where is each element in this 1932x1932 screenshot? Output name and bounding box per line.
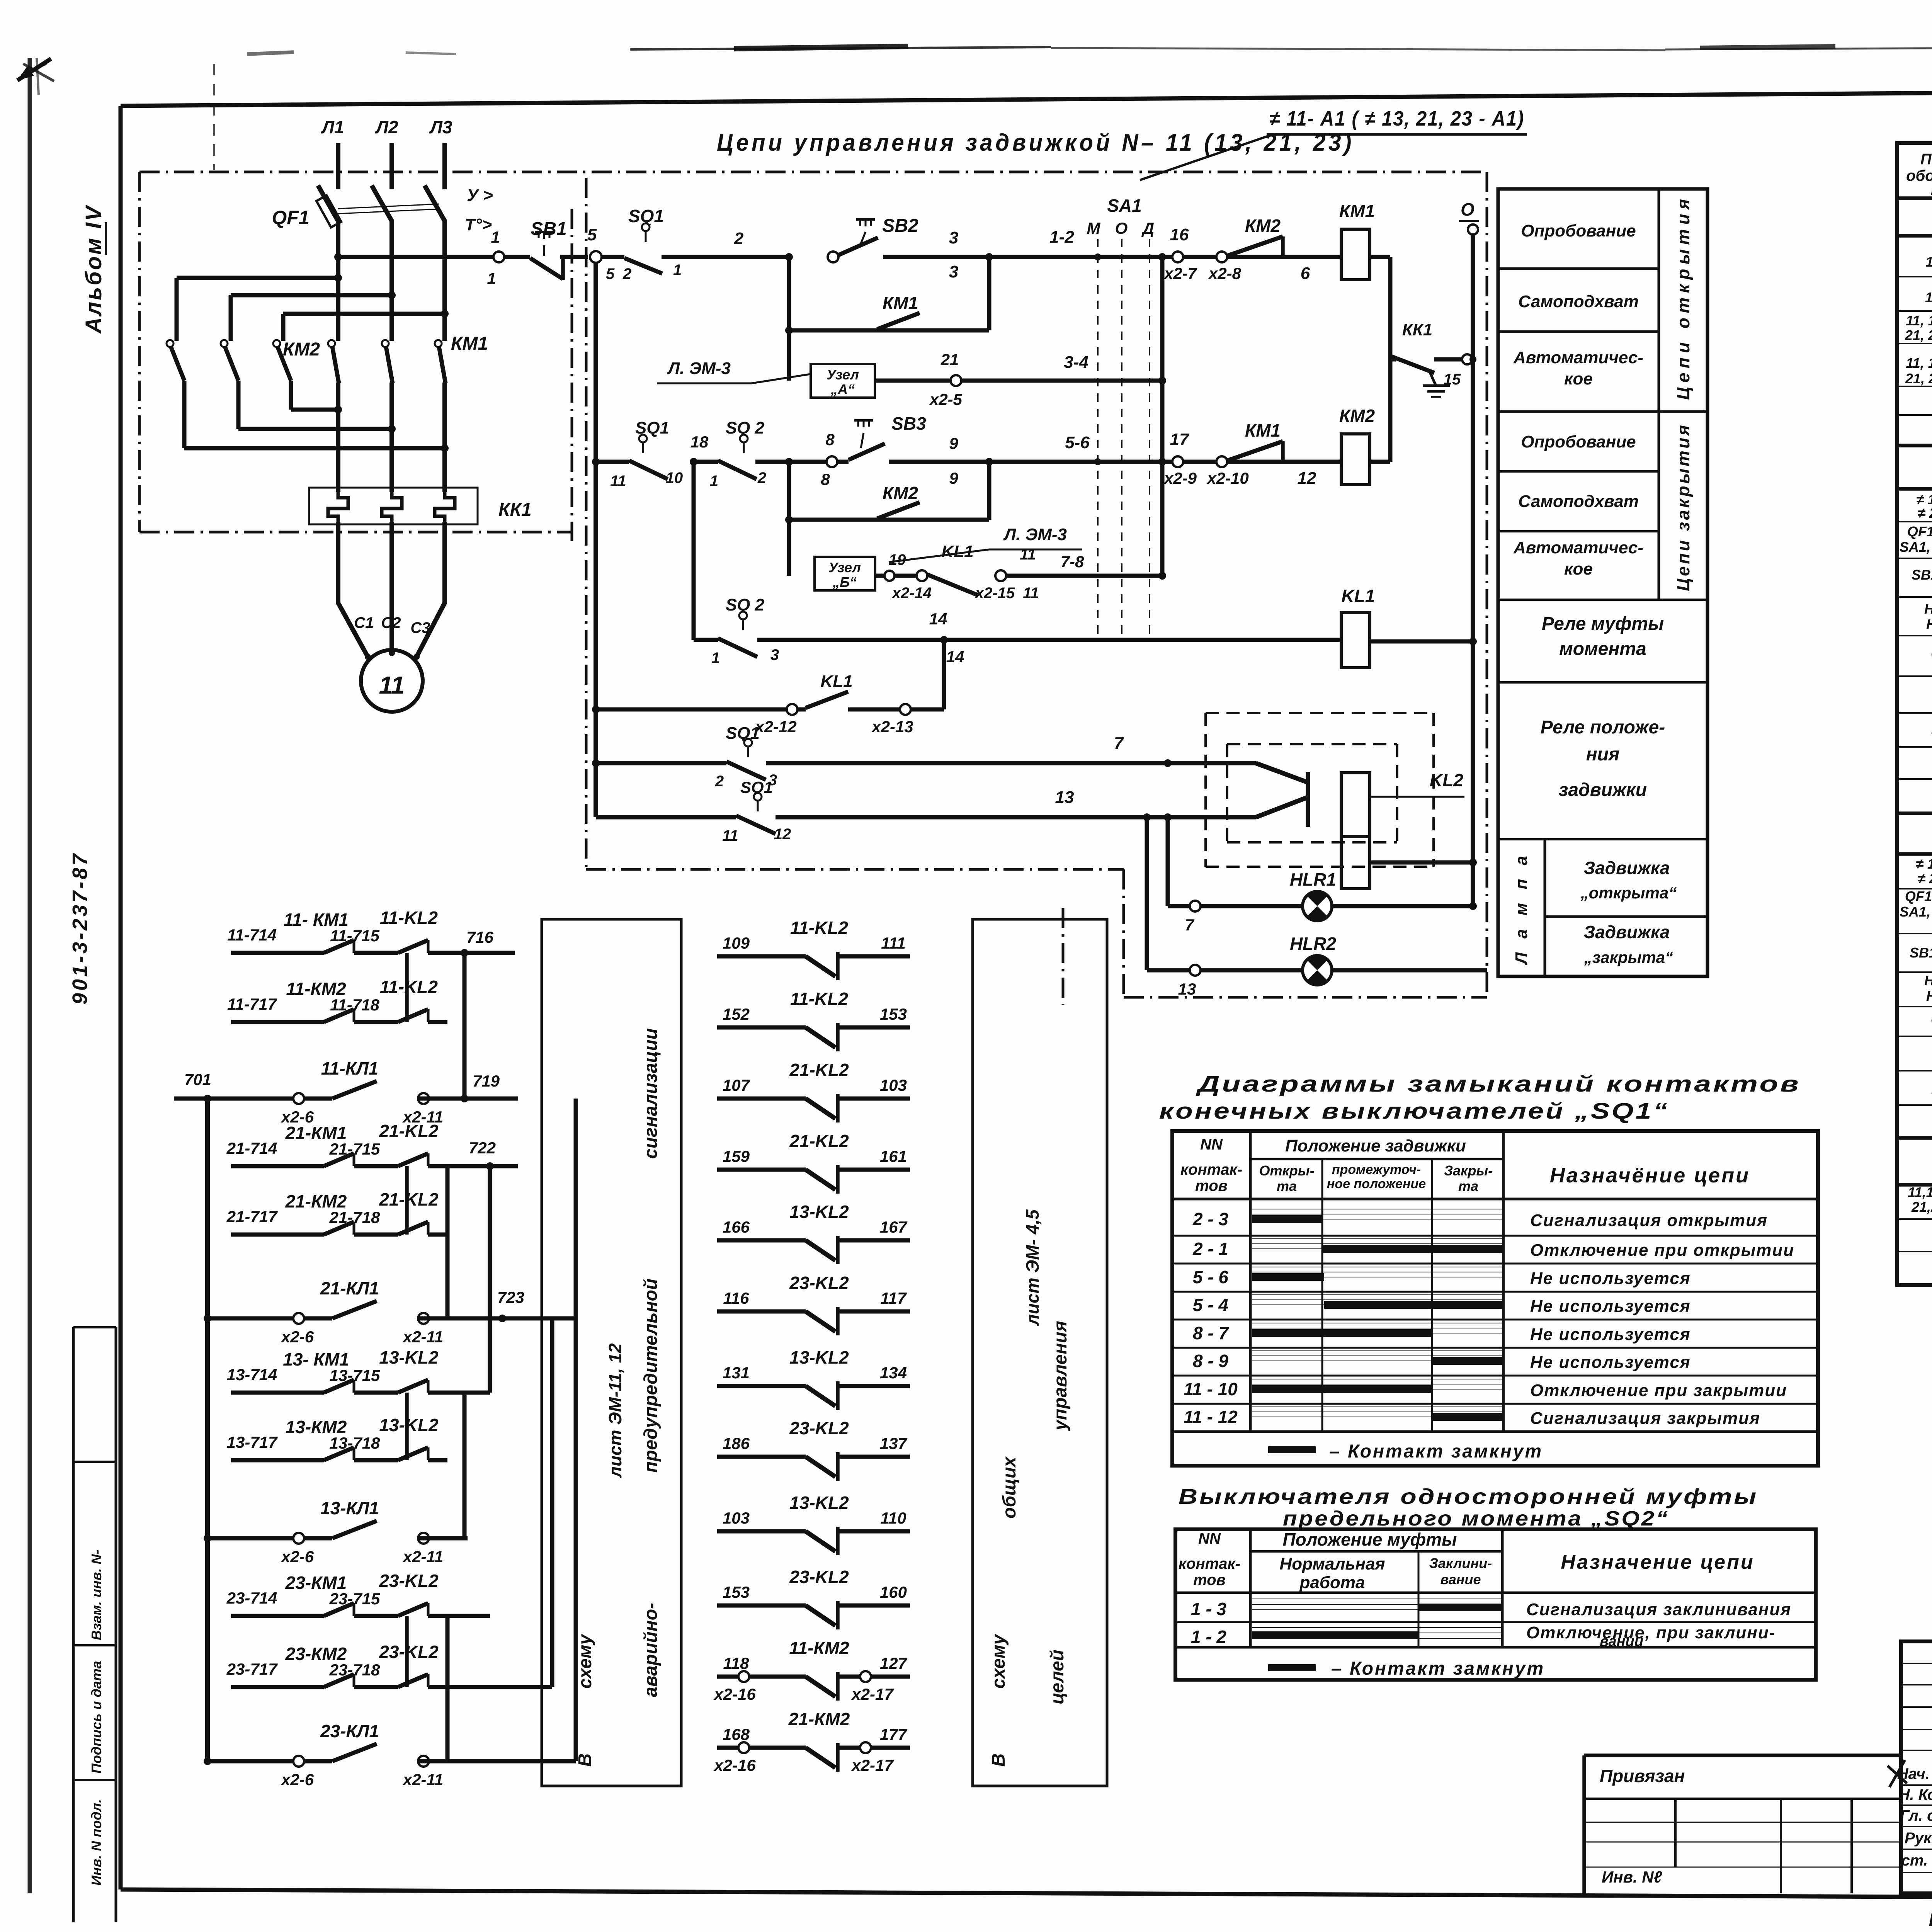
svg-text:Цепи управления задвижкой: Цепи управления задвижкой N– 11 (13, 21,… — [717, 129, 1354, 156]
svg-text:Автоматичес-: Автоматичес- — [1513, 538, 1643, 557]
svg-text:109: 109 — [723, 934, 750, 952]
svg-text:6: 6 — [1301, 264, 1310, 283]
svg-text:1: 1 — [487, 269, 496, 287]
left extension (Привязан) — [1584, 1753, 1901, 1757]
svg-text:х2-6: х2-6 — [281, 1770, 314, 1789]
svg-text:х2-11: х2-11 — [402, 1548, 443, 1566]
svg-text:13: 13 — [1178, 980, 1196, 998]
svg-text:11,13 -KL2;: 11,13 -KL2; — [1908, 1184, 1932, 1200]
svg-text:8: 8 — [821, 470, 830, 488]
svg-text:Самоподхват: Самоподхват — [1518, 292, 1639, 311]
svg-text:13-KL2: 13-KL2 — [789, 1347, 849, 1367]
svg-text:SA1, КК1,KL1: SA1, КК1,KL1 — [1900, 904, 1932, 920]
svg-text:Л. ЭМ-3: Л. ЭМ-3 — [667, 359, 731, 378]
svg-text:HLR1,: HLR1, — [1924, 973, 1932, 988]
svg-text:лист ЭМ-11, 12: лист ЭМ-11, 12 — [605, 1343, 625, 1478]
svg-text:1: 1 — [710, 473, 718, 490]
thermal element KK1 pole 2 — [382, 492, 402, 522]
svg-text:лист ЭМ- 4,5: лист ЭМ- 4,5 — [1022, 1209, 1043, 1326]
svg-text:1 - 2: 1 - 2 — [1191, 1627, 1226, 1647]
svg-text:„открыта“: „открыта“ — [1580, 884, 1677, 902]
KM2 pole 3 top bus — [281, 314, 286, 341]
left paper edge — [28, 58, 32, 1893]
svg-text:11-КМ2: 11-КМ2 — [789, 1638, 849, 1658]
svg-text:В: В — [575, 1753, 595, 1767]
svg-text:– Контакт замкнут: – Контакт замкнут — [1329, 1441, 1543, 1462]
svg-text:≠ 13- А1,: ≠ 13- А1, — [1916, 856, 1932, 872]
node 8 / SB3 — [789, 460, 827, 464]
svg-text:19: 19 — [889, 551, 906, 568]
routing box: аварийно-предупредительная сигнализация — [542, 919, 681, 1786]
svg-text:задвижки: задвижки — [1559, 780, 1647, 800]
svg-text:701: 701 — [184, 1070, 211, 1088]
svg-text:8: 8 — [825, 430, 835, 449]
svg-text:Положение задвижки: Положение задвижки — [1285, 1136, 1466, 1155]
legend row table 1 — [1268, 1446, 1316, 1453]
svg-text:8 - 9: 8 - 9 — [1193, 1351, 1228, 1371]
svg-text:Задвижка: Задвижка — [1584, 922, 1670, 942]
svg-text:КМ1: КМ1 — [451, 333, 488, 354]
svg-text:х2-8: х2-8 — [1208, 264, 1242, 282]
svg-text:160: 160 — [880, 1583, 907, 1601]
svg-text:промежуточ-: промежуточ- — [1332, 1162, 1421, 1177]
corner arrow mark — [17, 59, 51, 80]
diagram table SQ2 — [1175, 1529, 1816, 1680]
svg-text:х2-13: х2-13 — [871, 718, 913, 736]
svg-text:кое: кое — [1564, 369, 1593, 388]
svg-text:722: 722 — [469, 1139, 496, 1157]
svg-text:Сигнализация заклинивания: Сигнализация заклинивания — [1526, 1600, 1791, 1619]
wire: control tap row 1 — [334, 253, 342, 261]
svg-text:≠ 21- А1: ≠ 21- А1 — [1918, 505, 1932, 521]
svg-text:11-KL2: 11-KL2 — [380, 908, 438, 928]
svg-text:21-KL2: 21-KL2 — [789, 1060, 849, 1080]
svg-text:1 - 3: 1 - 3 — [1191, 1599, 1226, 1619]
svg-text:23-717: 23-717 — [226, 1660, 278, 1678]
svg-text:21-KL2: 21-KL2 — [789, 1131, 849, 1151]
svg-text:161: 161 — [880, 1147, 907, 1165]
svg-text:1-2: 1-2 — [1049, 228, 1074, 247]
svg-text:КК1: КК1 — [1402, 320, 1433, 339]
KM2 pole 3 contact — [273, 340, 280, 347]
svg-text:– Контакт замкнут: – Контакт замкнут — [1331, 1658, 1545, 1679]
svg-text:SА1: SА1 — [1107, 196, 1141, 216]
svg-text:23-КЛ1: 23-КЛ1 — [320, 1721, 379, 1741]
svg-text:11-KL2: 11-KL2 — [790, 989, 848, 1009]
svg-text:предельного момента „SQ2“: предельного момента „SQ2“ — [1283, 1507, 1669, 1530]
svg-text:16: 16 — [1170, 225, 1189, 244]
svg-text:21-КЛ1: 21-КЛ1 — [320, 1278, 379, 1298]
svg-text:Положение муфты: Положение муфты — [1283, 1529, 1457, 1549]
svg-text:18: 18 — [690, 433, 709, 451]
pushbutton SB2 — [828, 252, 838, 262]
uzel B row (7-8) — [815, 557, 875, 590]
svg-text:Взам. инв. N-: Взам. инв. N- — [88, 1550, 104, 1641]
svg-text:5: 5 — [606, 265, 615, 282]
svg-text:контак-: контак- — [1179, 1555, 1240, 1572]
svg-text:Сигнализация закрытия: Сигнализация закрытия — [1530, 1409, 1760, 1428]
svg-text:719: 719 — [473, 1072, 500, 1090]
svg-text:контак-: контак- — [1180, 1161, 1242, 1178]
svg-text:21-KL2: 21-KL2 — [379, 1189, 439, 1209]
svg-text:152: 152 — [723, 1005, 750, 1023]
svg-text:13-KL2: 13-KL2 — [379, 1347, 439, 1367]
svg-text:х2-5: х2-5 — [929, 390, 963, 408]
svg-text:х2-11: х2-11 — [402, 1328, 443, 1346]
svg-text:≠ 23- А1: ≠ 23- А1 — [1918, 871, 1932, 886]
svg-text:х2-11: х2-11 — [402, 1770, 443, 1789]
svg-text:ние: ние — [1931, 182, 1932, 199]
svg-text:сигнализации: сигнализации — [641, 1028, 661, 1159]
svg-text:Диаграммы замыканий к: Диаграммы замыканий контактов — [1195, 1071, 1801, 1097]
svg-text:х2-14: х2-14 — [891, 585, 932, 602]
svg-text:Привязан: Привязан — [1600, 1766, 1685, 1786]
svg-text:Копир Лаврухина: Копир Лаврухина — [1929, 1909, 1932, 1930]
svg-text:23-714: 23-714 — [226, 1589, 277, 1607]
svg-text:13-КЛ1: 13-КЛ1 — [320, 1498, 379, 1518]
svg-text:23-KL2: 23-KL2 — [379, 1571, 439, 1591]
svg-text:С1: С1 — [354, 614, 374, 631]
svg-text:901-3-237-87: 901-3-237-87 — [68, 852, 92, 1005]
svg-text:5 - 6: 5 - 6 — [1193, 1267, 1228, 1287]
svg-text:131: 131 — [723, 1364, 750, 1382]
svg-text:2: 2 — [622, 265, 631, 282]
svg-text:„Б“: „Б“ — [832, 574, 857, 590]
row x2-12 KL1 x2-13 — [596, 707, 787, 712]
svg-text:КМ2: КМ2 — [283, 339, 320, 360]
svg-text:Отключение, при заклини-: Отключение, при заклини- — [1526, 1623, 1776, 1642]
svg-text:11-КЛ1: 11-КЛ1 — [321, 1058, 379, 1078]
branch: KM2 self-hold — [785, 516, 793, 524]
svg-text:Инв. Nℓ: Инв. Nℓ — [1602, 1868, 1662, 1886]
svg-text:9: 9 — [949, 434, 958, 452]
svg-text:21, 23 SQ,1ʾ: 21, 23 SQ,1ʾ — [1905, 327, 1932, 343]
svg-text:12: 12 — [1298, 469, 1316, 488]
svg-text:2: 2 — [715, 773, 724, 790]
svg-text:Реле положе-: Реле положе- — [1541, 717, 1665, 738]
svg-text:В: В — [988, 1753, 1009, 1767]
svg-text:ст. инж.: ст. инж. — [1901, 1852, 1932, 1869]
svg-text:103: 103 — [880, 1076, 907, 1094]
svg-text:КМ2: КМ2 — [883, 483, 918, 503]
svg-text:Задвижка: Задвижка — [1584, 858, 1670, 878]
KM2 pole 1 top bus — [175, 278, 179, 341]
svg-text:HLR2: HLR2 — [1926, 988, 1932, 1004]
svg-text:SQ1: SQ1 — [726, 724, 760, 743]
svg-text:153: 153 — [723, 1583, 750, 1601]
svg-text:21: 21 — [940, 350, 959, 369]
KM2 pole bottom bus 3 — [182, 381, 187, 448]
svg-text:NN: NN — [1200, 1136, 1223, 1153]
svg-text:5 - 4: 5 - 4 — [1193, 1295, 1228, 1315]
svg-text:11-KL2: 11-KL2 — [380, 977, 438, 997]
svg-text:159: 159 — [723, 1147, 750, 1165]
svg-text:3: 3 — [949, 262, 958, 281]
svg-text:та: та — [1277, 1178, 1297, 1194]
svg-text:QF1: QF1 — [272, 207, 309, 228]
svg-text:153: 153 — [880, 1005, 907, 1023]
contactor KM1 pole 1 — [328, 340, 335, 347]
svg-text:та: та — [1458, 1178, 1478, 1194]
svg-text:HLR1: HLR1 — [1290, 869, 1336, 889]
svg-text:Отключение при закрытии: Отключение при закрытии — [1530, 1381, 1787, 1400]
dashed enclosure: control section — [585, 178, 588, 869]
svg-text:ное положение: ное положение — [1327, 1177, 1426, 1191]
svg-text:КМ1: КМ1 — [1245, 420, 1281, 440]
svg-text:вание: вание — [1440, 1571, 1481, 1587]
svg-text:х2-6: х2-6 — [281, 1548, 314, 1566]
svg-text:110: 110 — [881, 1509, 906, 1527]
branch: KM1 self-hold — [787, 257, 791, 381]
svg-text:2 - 1: 2 - 1 — [1192, 1239, 1228, 1259]
svg-text:13-KL2: 13-KL2 — [789, 1493, 849, 1513]
svg-text:КМ2: КМ2 — [1339, 406, 1375, 426]
svg-text:Откры-: Откры- — [1259, 1163, 1315, 1179]
svg-text:управления: управления — [1050, 1321, 1071, 1431]
coil KL2 — [1341, 773, 1370, 837]
svg-text:111: 111 — [881, 934, 906, 952]
svg-text:11-714: 11-714 — [227, 926, 277, 944]
svg-text:11: 11 — [1020, 546, 1036, 563]
svg-text:NN: NN — [1198, 1530, 1221, 1547]
svg-text:Сигнализация открытия: Сигнализация открытия — [1530, 1211, 1768, 1230]
svg-text:х2-17: х2-17 — [851, 1756, 894, 1774]
svg-text:КК1: КК1 — [498, 500, 532, 520]
svg-text:KL2: KL2 — [1430, 770, 1463, 790]
thermal element KK1 pole 1 — [328, 492, 348, 522]
svg-text:11, 13 SQ 2,: 11, 13 SQ 2, — [1906, 355, 1932, 371]
svg-text:Т°>: Т°> — [465, 215, 492, 234]
svg-text:Узел: Узел — [828, 560, 861, 575]
node 701 row — [174, 1097, 207, 1101]
routing box: общие цепи управления — [973, 919, 1107, 1786]
position relay KL2 dashed boxes — [1206, 712, 1434, 714]
svg-text:Закры-: Закры- — [1444, 1163, 1493, 1179]
coil KM2 — [1341, 434, 1370, 485]
svg-text:кое: кое — [1564, 560, 1593, 578]
terminal x2-10 — [1216, 456, 1227, 467]
svg-text:HLR2: HLR2 — [1290, 934, 1337, 954]
wire row1 to coil — [989, 255, 1341, 259]
svg-text:Л3: Л3 — [429, 117, 452, 137]
svg-text:11, 21: 11, 21 — [1925, 254, 1932, 270]
svg-text:схему: схему — [575, 1633, 595, 1689]
svg-text:7: 7 — [1185, 916, 1194, 934]
svg-text:работа: работа — [1299, 1573, 1365, 1592]
svg-text:107: 107 — [723, 1076, 750, 1094]
svg-text:2: 2 — [734, 229, 744, 248]
svg-text:Гл. спец.: Гл. спец. — [1900, 1807, 1932, 1824]
svg-text:7: 7 — [1114, 734, 1124, 753]
svg-text:Заклини-: Заклини- — [1429, 1555, 1492, 1571]
svg-text:Узел: Узел — [827, 367, 859, 383]
svg-text:Не используется: Не используется — [1530, 1353, 1691, 1372]
phase line 3 — [442, 143, 447, 189]
svg-text:М: М — [1087, 219, 1101, 237]
svg-text:10: 10 — [666, 469, 683, 486]
lamp HLR1 row — [1166, 817, 1170, 906]
terminal x2-7 — [1172, 252, 1183, 262]
vertical link D-column — [1160, 257, 1165, 576]
KM2 pole 2 contact — [221, 340, 228, 347]
contactor KM1 pole 2 — [382, 340, 389, 347]
svg-text:О: О — [1461, 199, 1475, 219]
svg-text:момента: момента — [1559, 639, 1646, 659]
svg-text:21, 23, SQ 2: 21, 23, SQ 2 — [1905, 371, 1932, 386]
svg-text:23-KL2: 23-KL2 — [379, 1642, 439, 1662]
svg-text:168: 168 — [723, 1725, 750, 1743]
svg-text:13, 23: 13, 23 — [1925, 289, 1932, 305]
svg-text:х2-6: х2-6 — [281, 1328, 314, 1346]
svg-text:5-6: 5-6 — [1065, 433, 1090, 452]
left margin stamp column — [72, 1327, 75, 1922]
svg-text:13-714: 13-714 — [227, 1366, 277, 1384]
svg-text:13-KL2: 13-KL2 — [789, 1202, 849, 1222]
svg-text:118: 118 — [723, 1654, 750, 1672]
svg-text:13-KL2: 13-KL2 — [379, 1415, 439, 1435]
svg-text:схему: схему — [988, 1633, 1009, 1689]
svg-text:11: 11 — [379, 671, 405, 699]
uzel A row (3-4) — [811, 364, 875, 398]
title block — [1901, 1641, 1932, 1893]
KM2 pole bottom bus 1 — [289, 381, 293, 410]
svg-text:Подпись и дата: Подпись и дата — [88, 1661, 104, 1774]
left ladder bus — [205, 1099, 210, 1761]
svg-text:5: 5 — [587, 225, 597, 244]
svg-text:723: 723 — [497, 1288, 524, 1306]
svg-text:Н. Контр: Н. Контр — [1899, 1786, 1932, 1803]
svg-text:х2-7: х2-7 — [1163, 264, 1197, 282]
svg-text:1: 1 — [673, 262, 682, 279]
svg-text:х2-17: х2-17 — [851, 1685, 894, 1703]
svg-text:„закрыта“: „закрыта“ — [1584, 948, 1673, 966]
svg-text:SA1, КК1,KL1: SA1, КК1,KL1 — [1900, 539, 1932, 555]
svg-text:23-KL2: 23-KL2 — [789, 1273, 849, 1293]
svg-text:14: 14 — [929, 610, 947, 628]
svg-text:Не используется: Не используется — [1530, 1269, 1691, 1288]
terminal x2-8 — [1216, 252, 1227, 262]
svg-text:SB1... SB3: SB1... SB3 — [1910, 945, 1932, 961]
svg-text:HLR2: HLR2 — [1926, 616, 1932, 632]
svg-text:Автоматичес-: Автоматичес- — [1513, 348, 1643, 367]
svg-text:KL1: KL1 — [820, 672, 852, 691]
svg-text:13: 13 — [1055, 788, 1074, 807]
motor 11 — [361, 650, 423, 712]
svg-text:Опробование: Опробование — [1521, 432, 1636, 451]
terminal x2-9 — [1172, 456, 1183, 467]
svg-text:Выключателя односторонней: Выключателя односторонней муфты — [1179, 1484, 1758, 1509]
svg-text:Д: Д — [1141, 219, 1154, 237]
svg-text:SB2: SB2 — [882, 216, 918, 236]
svg-text:предупредительной: предупредительной — [641, 1279, 661, 1473]
svg-text:21-714: 21-714 — [226, 1139, 277, 1157]
svg-text:1: 1 — [711, 650, 720, 667]
KM2 pole 1 contact — [167, 340, 173, 347]
svg-text:3: 3 — [770, 646, 779, 663]
ground — [1430, 372, 1436, 386]
svg-text:3-4: 3-4 — [1064, 353, 1088, 372]
svg-text:Рук. др.: Рук. др. — [1905, 1830, 1932, 1847]
contactor KM1 pole 3 — [435, 340, 442, 347]
thermal relay KK1 box — [309, 488, 478, 524]
svg-text:12: 12 — [774, 826, 791, 843]
svg-text:11-717: 11-717 — [227, 995, 277, 1013]
svg-text:11-KL2: 11-KL2 — [790, 918, 848, 938]
svg-text:9: 9 — [949, 469, 958, 487]
svg-text:21-717: 21-717 — [226, 1207, 278, 1226]
svg-text:х2-16: х2-16 — [713, 1685, 756, 1703]
svg-text:х2-12: х2-12 — [754, 718, 796, 736]
svg-text:ния: ния — [1586, 744, 1620, 765]
svg-text:21-KL2: 21-KL2 — [379, 1121, 439, 1141]
svg-text:177: 177 — [880, 1725, 908, 1743]
svg-text:SB1.. SB3: SB1.. SB3 — [1912, 567, 1932, 583]
svg-text:Реле муфты: Реле муфты — [1542, 614, 1664, 634]
svg-text:14: 14 — [946, 648, 964, 666]
svg-text:Л1: Л1 — [321, 117, 344, 137]
svg-text:Позиц: Позиц — [1920, 151, 1932, 168]
svg-text:х2-9: х2-9 — [1163, 469, 1197, 487]
svg-text:О: О — [1115, 219, 1128, 237]
svg-text:11: 11 — [722, 827, 738, 844]
svg-text:общих: общих — [999, 1456, 1020, 1519]
svg-text:23-KL2: 23-KL2 — [789, 1567, 849, 1587]
svg-text:Альбом IV: Альбом IV — [81, 204, 106, 334]
svg-text:117: 117 — [881, 1289, 907, 1307]
changeover contact — [1168, 761, 1256, 765]
svg-text:Нормальная: Нормальная — [1280, 1554, 1385, 1573]
svg-text:Отключение при открытии: Отключение при открытии — [1530, 1241, 1794, 1260]
torque relay row 14 — [692, 462, 696, 640]
fold mark — [213, 64, 215, 170]
svg-text:Не используется: Не используется — [1530, 1297, 1691, 1316]
svg-text:Л2: Л2 — [375, 117, 398, 137]
svg-text:HLR1,: HLR1, — [1924, 601, 1932, 617]
svg-text:вании: вании — [1600, 1633, 1643, 1650]
svg-text:13-717: 13-717 — [227, 1433, 278, 1451]
svg-text:КМ1: КМ1 — [883, 293, 918, 313]
svg-text:х2-10: х2-10 — [1206, 469, 1248, 487]
svg-text:11: 11 — [610, 473, 626, 490]
svg-text:11, 13 SQ,1,: 11, 13 SQ,1, — [1906, 313, 1932, 328]
svg-text:11 - 10: 11 - 10 — [1184, 1379, 1238, 1399]
close row (5-6) — [594, 263, 598, 817]
svg-text:11 - 12: 11 - 12 — [1184, 1407, 1238, 1427]
svg-text:KL1: KL1 — [941, 542, 973, 561]
svg-text:103: 103 — [723, 1509, 750, 1527]
svg-text:QF1, КМ1,2;: QF1, КМ1,2; — [1905, 888, 1932, 904]
svg-text:х2-15: х2-15 — [975, 585, 1015, 602]
svg-text:7-8: 7-8 — [1061, 553, 1084, 571]
svg-text:конечных выключателей: конечных выключателей „SQ1“ — [1159, 1099, 1669, 1124]
svg-text:134: 134 — [880, 1364, 907, 1382]
function table — [1498, 189, 1708, 976]
svg-text:21,23-KL2: 21,23-KL2 — [1911, 1199, 1932, 1215]
svg-text:КМ1: КМ1 — [1339, 201, 1375, 221]
svg-text:716: 716 — [466, 928, 494, 946]
drawing frame — [121, 87, 1932, 106]
svg-text:обозначе-: обозначе- — [1906, 167, 1932, 184]
svg-text:Л. ЭМ-3: Л. ЭМ-3 — [1003, 525, 1067, 544]
svg-text:11: 11 — [1023, 585, 1039, 602]
svg-text:„А“: „А“ — [830, 381, 855, 397]
svg-text:аварийно-: аварийно- — [641, 1603, 661, 1697]
svg-text:167: 167 — [880, 1218, 908, 1236]
svg-text:целей: целей — [1047, 1650, 1068, 1704]
coil KL1 — [1341, 612, 1370, 668]
svg-text:127: 127 — [880, 1654, 908, 1672]
svg-text:Инв. N подл.: Инв. N подл. — [88, 1799, 104, 1886]
